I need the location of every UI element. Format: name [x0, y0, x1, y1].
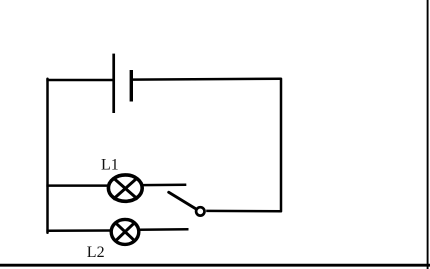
wire L2 right segment (open end) — [139, 228, 189, 231]
lamp L2 — [111, 219, 139, 244]
table border bottom edge — [0, 264, 430, 267]
wire switch to right rail — [206, 210, 281, 213]
svg-text:L1: L1 — [101, 156, 119, 173]
wire L1 right segment — [143, 184, 187, 187]
battery B1 long plate (+) — [112, 54, 115, 113]
switch S1 pivot circle — [196, 207, 204, 215]
svg-text:L2: L2 — [87, 244, 105, 261]
battery B1 short plate (-) — [130, 70, 133, 102]
switch S1 blade (open) — [169, 192, 196, 208]
wire top-left (node A to battery) — [46, 79, 112, 82]
wire L1 left segment — [46, 184, 108, 187]
wire right rail vertical — [280, 79, 283, 212]
wire L2 left segment — [46, 229, 111, 232]
lamp L1 — [108, 175, 142, 201]
wire left rail vertical — [46, 79, 49, 233]
wire top-right (battery to right rail) — [132, 77, 282, 80]
table border right edge — [427, 0, 429, 269]
